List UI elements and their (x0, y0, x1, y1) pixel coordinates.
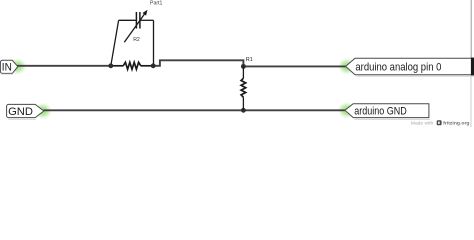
pot wiper arrowhead (143, 10, 148, 16)
svg-text:Part1: Part1 (150, 0, 163, 6)
node arduino-analog connection highlight (338, 58, 356, 75)
pot plate bar 2 (139, 12, 141, 29)
wire: gray vertical wire at right edge (470, 0, 472, 58)
R1 zigzag body (241, 78, 246, 97)
junction dot: pot left terminal (108, 63, 113, 68)
pot horizontal lead right (141, 65, 154, 67)
junction dot: R1 bottom node (241, 108, 246, 113)
wire: R1 top junction to arduino analog pin 0 flag (243, 65, 345, 67)
svg-text:fritzing.org: fritzing.org (443, 121, 469, 127)
pot resistive element zigzag (123, 62, 141, 69)
net label IN (0, 60, 17, 73)
wire IN net: flag tip to pot left terminal (17, 65, 111, 67)
svg-text:Made with: Made with (411, 121, 434, 127)
node arduino-GND connection highlight (338, 102, 356, 119)
wire: gray vertical wire at right edge (lower faint part) (470, 75, 472, 127)
pot top wire right of plates (141, 19, 154, 21)
node IN connection highlight (8, 58, 26, 75)
wire GND net: flag tip to arduino GND flag (43, 109, 345, 111)
svg-text:IN: IN (2, 62, 12, 74)
wire jog: pot right terminal to R1 top (153, 60, 243, 66)
pot left lead (slanted leg) (111, 20, 119, 66)
net label GND (7, 104, 44, 118)
flag shadow: under GND flag (8, 118, 36, 120)
node GND connection highlight (34, 103, 52, 120)
R1 bottom lead (242, 97, 244, 110)
net label arduino GND (345, 104, 429, 118)
pot right leg (153, 20, 155, 66)
svg-text:GND: GND (8, 106, 33, 118)
svg-text:R1: R1 (246, 57, 253, 63)
net label arduino analog pin 0 (346, 58, 474, 75)
pot wiper arrow shaft (124, 14, 144, 43)
pot plate bar 1 (135, 12, 137, 29)
watermark: Made with fritzing.org (411, 120, 470, 126)
flag shadow: under IN flag (1, 73, 13, 75)
svg-text:arduino GND: arduino GND (354, 106, 407, 118)
svg-text:R2: R2 (133, 37, 140, 43)
junction dot: R1 top node (241, 64, 246, 69)
pot top wire left of plates (119, 19, 136, 21)
trimmer potentiometer R2 (Part1) (111, 12, 154, 69)
clipped black element at right edge (471, 58, 474, 76)
flag shadow: under arduino GND flag (355, 118, 431, 120)
flag shadow: under arduino analog pin 0 flag (357, 75, 474, 77)
resistor R1 (241, 66, 246, 110)
junction dot: pot right terminal (151, 63, 156, 68)
svg-text:arduino analog pin 0: arduino analog pin 0 (355, 61, 441, 73)
R1 top lead (242, 66, 244, 78)
pot horizontal lead left (111, 65, 124, 67)
